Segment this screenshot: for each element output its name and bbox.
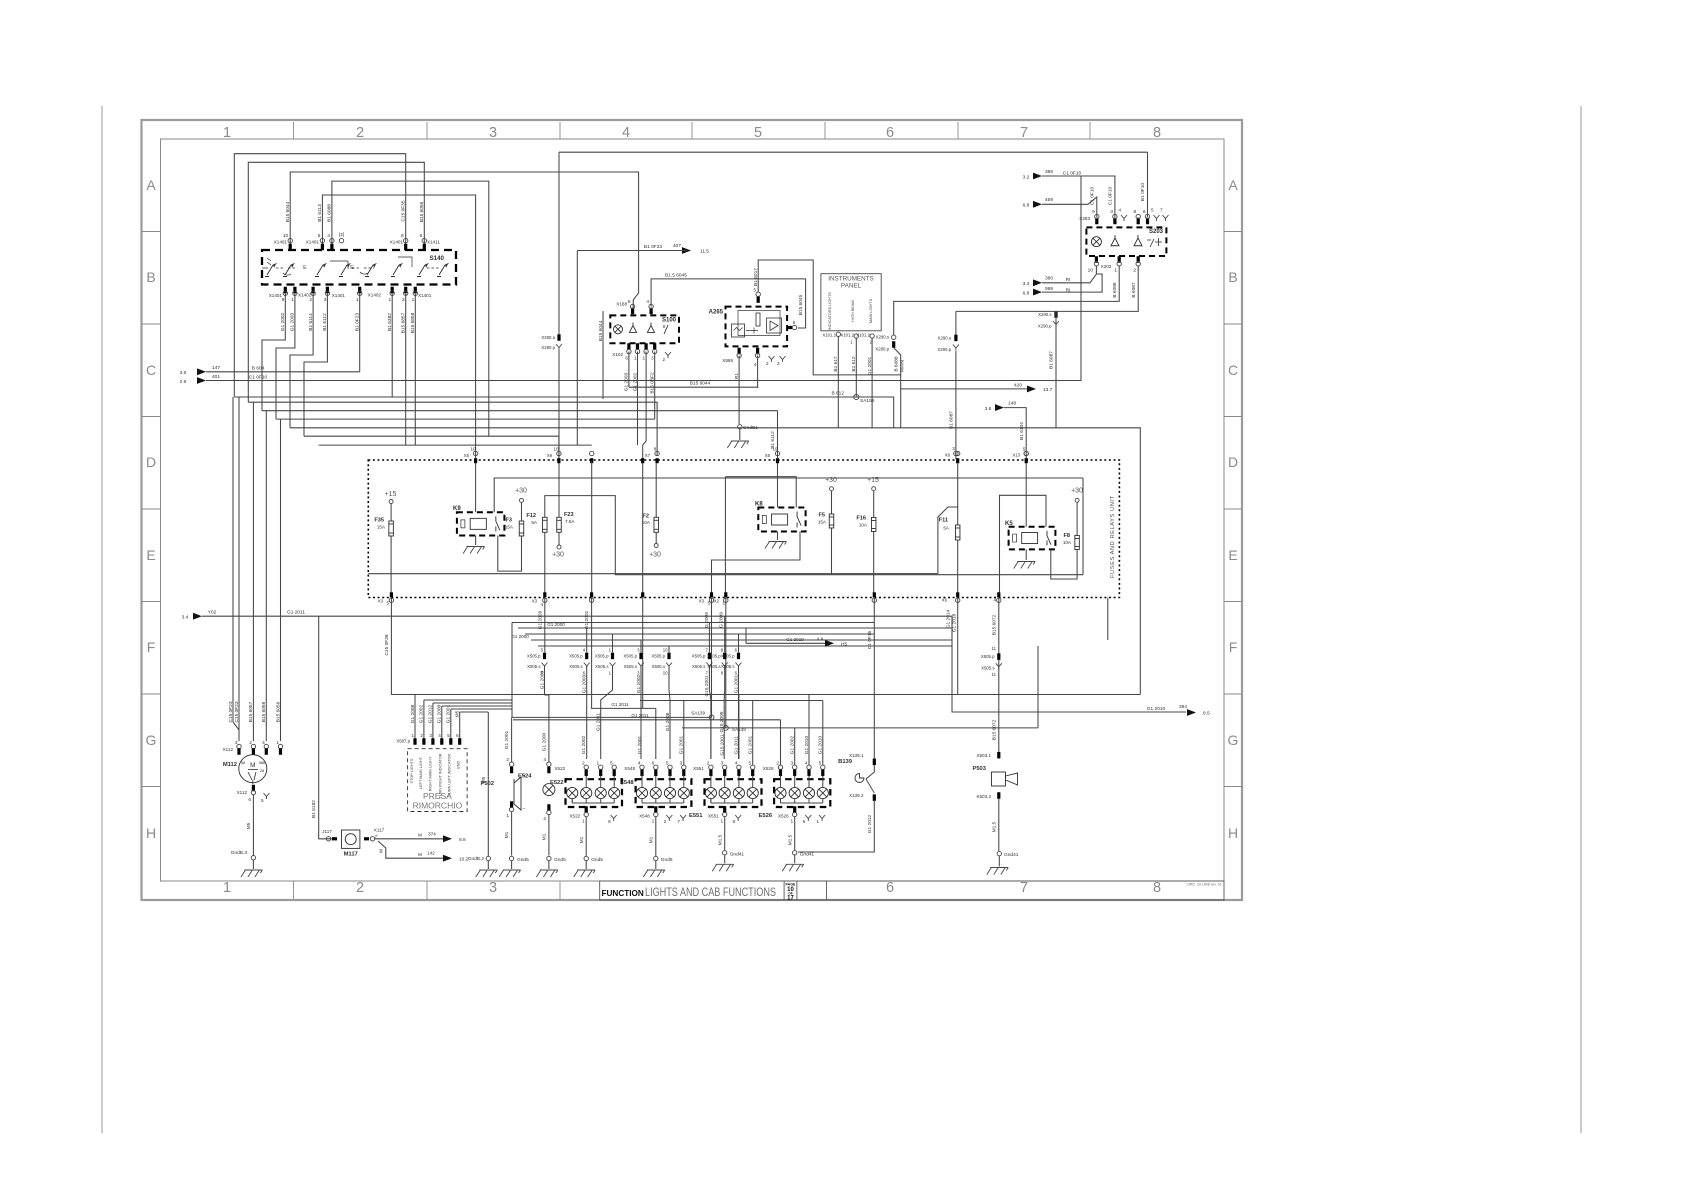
bus L3 <box>518 627 952 629</box>
A265 top terminal <box>757 296 760 303</box>
svg-text:F3: F3 <box>505 518 512 524</box>
svg-text:P503: P503 <box>972 766 986 772</box>
svg-text:X13: X13 <box>1012 453 1020 458</box>
wire F2 up <box>655 463 657 517</box>
svg-text:MAIN: MAIN <box>899 359 905 372</box>
svg-text:1: 1 <box>412 297 415 303</box>
wire A265 pin4 down <box>757 356 759 389</box>
svg-text:C15 0F38: C15 0F38 <box>384 634 390 655</box>
svg-text:E: E <box>146 547 155 563</box>
svg-text:J117: J117 <box>322 829 332 834</box>
wire X101.1 down to bus <box>837 337 839 428</box>
svg-text:3: 3 <box>429 733 432 738</box>
svg-text:X505.p: X505.p <box>595 654 609 659</box>
wire to M117 <box>319 616 332 839</box>
svg-text:F11: F11 <box>939 518 948 524</box>
ground GndB1 <box>738 425 742 429</box>
svg-text:4: 4 <box>1118 208 1121 213</box>
svg-text:INSTRUMENTS: INSTRUMENTS <box>828 276 873 283</box>
svg-text:B1 6104: B1 6104 <box>1019 422 1025 440</box>
PRESA pin6 M5 to GndB2 <box>460 711 489 713</box>
svg-text:M1: M1 <box>649 836 655 843</box>
svg-text:5: 5 <box>386 601 389 606</box>
wire S203 pin2 left <box>956 266 1138 311</box>
svg-text:+30: +30 <box>515 488 527 495</box>
E522 bottom rail <box>571 799 573 803</box>
svg-text:[2]: [2] <box>339 232 344 237</box>
svg-text:8: 8 <box>1153 880 1161 896</box>
svg-text:M1.5: M1.5 <box>788 834 794 845</box>
svg-text:G1 2011: G1 2011 <box>596 713 602 731</box>
svg-text:2: 2 <box>356 880 364 896</box>
svg-text:1: 1 <box>722 601 725 606</box>
svg-text:2: 2 <box>543 816 546 822</box>
svg-text:+30: +30 <box>1071 488 1083 495</box>
svg-text:E551: E551 <box>689 813 703 819</box>
svg-text:1: 1 <box>506 813 509 819</box>
svg-text:M1.5: M1.5 <box>718 834 724 845</box>
wire M112 aux stub <box>233 397 239 730</box>
relay K5 <box>1009 527 1056 550</box>
svg-text:X505.s: X505.s <box>624 664 637 669</box>
M117 motor <box>342 830 360 848</box>
bus L6 <box>538 645 952 647</box>
svg-text:G15 2001: G15 2001 <box>720 734 726 755</box>
svg-text:4: 4 <box>754 362 757 367</box>
svg-text:B15 6072: B15 6072 <box>991 614 997 635</box>
svg-text:X2: X2 <box>714 599 720 604</box>
E526 bottom rail <box>780 799 782 803</box>
svg-text:380: 380 <box>1045 276 1053 282</box>
svg-text:A265: A265 <box>709 310 724 316</box>
svg-text:G1 2012: G1 2012 <box>867 814 873 833</box>
svg-text:LEFT MAIN LIGHT: LEFT MAIN LIGHT <box>419 756 423 789</box>
svg-text:E: E <box>350 265 354 271</box>
svg-text:X280.p: X280.p <box>541 345 555 350</box>
svg-text:19: 19 <box>772 447 778 452</box>
svg-text:X503.1: X503.1 <box>976 753 991 758</box>
wire 407 drop <box>576 251 578 446</box>
left fan bus 4 <box>276 418 655 420</box>
svg-text:4.9: 4.9 <box>817 637 824 642</box>
svg-text:F35: F35 <box>374 518 384 524</box>
svg-text:+15: +15 <box>867 477 879 484</box>
svg-text:B 6087: B 6087 <box>1131 282 1137 298</box>
svg-text:INDICATORS LIGHTS: INDICATORS LIGHTS <box>828 292 832 330</box>
wire nest top-left run2 <box>248 162 424 402</box>
wire M117 arrow2 <box>378 841 443 858</box>
svg-text:−: − <box>523 806 526 812</box>
wire M112 pin4 drop <box>265 411 267 741</box>
svg-text:148: 148 <box>1008 401 1016 407</box>
svg-text:5: 5 <box>707 601 710 606</box>
svg-text:X865: X865 <box>722 358 733 363</box>
svg-text:6: 6 <box>886 125 894 141</box>
P502 wires <box>511 717 513 762</box>
svg-text:G1 2011: G1 2011 <box>287 610 305 616</box>
bus L12 <box>513 719 781 721</box>
wire M117 arrow1 <box>375 838 444 840</box>
svg-text:X3: X3 <box>378 599 384 604</box>
svg-text:G15 2001: G15 2001 <box>704 675 710 696</box>
svg-text:3.2: 3.2 <box>1023 175 1030 181</box>
svg-text:C1 0F10: C1 0F10 <box>1089 186 1095 205</box>
left fan bus 5 to right frame <box>290 428 1140 695</box>
svg-text:6: 6 <box>625 356 628 361</box>
svg-text:X280.a: X280.a <box>541 335 555 340</box>
svg-text:X7: X7 <box>645 453 651 458</box>
svg-text:C15 0F23: C15 0F23 <box>234 701 240 722</box>
left fan bus 7 <box>319 444 592 446</box>
svg-text:X9: X9 <box>547 453 553 458</box>
svg-text:X551: X551 <box>708 814 719 819</box>
svg-text:1: 1 <box>652 819 655 825</box>
svg-text:4: 4 <box>543 757 546 763</box>
relay K8 <box>758 508 805 532</box>
lamp cluster E526 <box>774 779 830 807</box>
svg-text:X505.p: X505.p <box>623 654 637 659</box>
svg-text:C1 0F10: C1 0F10 <box>1107 186 1113 205</box>
svg-text:Gnd41: Gnd41 <box>1004 852 1019 858</box>
svg-text:6: 6 <box>1143 209 1146 215</box>
svg-text:G1 2011: G1 2011 <box>631 713 649 718</box>
S100 bottom terminals <box>627 343 630 350</box>
connector X290 pair x894 <box>893 301 895 335</box>
svg-text:E522: E522 <box>550 780 564 786</box>
wires S140 bottom to left fan <box>262 293 285 410</box>
wire G1 2001 through box <box>591 461 593 594</box>
wire K5 contact bus <box>1000 495 1047 594</box>
svg-text:X188: X188 <box>616 302 627 307</box>
svg-text:GndB.3: GndB.3 <box>231 850 248 856</box>
svg-text:X587.p: X587.p <box>396 739 410 744</box>
bus L7 main lower <box>512 694 1140 696</box>
bus L5 <box>531 639 952 641</box>
svg-text:3: 3 <box>651 356 654 361</box>
svg-text:GndB.2: GndB.2 <box>468 856 485 862</box>
svg-text:M1: M1 <box>579 836 585 843</box>
svg-text:F: F <box>147 639 156 655</box>
wire S140 pin5 to relay K9 <box>322 195 475 458</box>
svg-text:X290.s: X290.s <box>1038 312 1051 317</box>
svg-text:6: 6 <box>793 320 796 325</box>
svg-text:X1402: X1402 <box>368 293 382 298</box>
svg-text:Gnd41: Gnd41 <box>730 851 745 857</box>
svg-text:A: A <box>146 177 156 193</box>
svg-text:SA139: SA139 <box>691 711 705 716</box>
connector X290 pair second <box>1054 311 1057 318</box>
svg-text:X101.2: X101.2 <box>856 333 870 338</box>
wire F11 via <box>957 463 959 525</box>
svg-text:F12: F12 <box>526 513 536 519</box>
wire M112 pin2 drop <box>252 402 254 741</box>
B139 switch <box>866 765 874 779</box>
svg-text:1: 1 <box>817 819 820 824</box>
wire 998 to S203 pin10 branch <box>1042 274 1102 292</box>
svg-text:X139.1: X139.1 <box>849 753 864 758</box>
svg-text:998: 998 <box>1045 286 1053 292</box>
fuse box bottom terminals <box>390 592 393 597</box>
svg-text:7: 7 <box>1020 125 1028 141</box>
wire B15 6044 left stub <box>602 311 604 399</box>
wire box to L7 <box>957 598 959 695</box>
svg-text:3: 3 <box>324 297 327 303</box>
svg-text:1: 1 <box>721 819 724 825</box>
S140 bottom terminals <box>284 287 287 294</box>
svg-text:11: 11 <box>992 672 997 677</box>
svg-text:142: 142 <box>427 851 435 856</box>
svg-text:+15: +15 <box>385 491 397 498</box>
svg-text:X1411: X1411 <box>427 240 440 245</box>
wire X101.2 G1 2001 down <box>871 338 873 428</box>
svg-text:X290.s: X290.s <box>938 336 951 341</box>
S140 top terminals <box>289 244 292 251</box>
svg-text:E524: E524 <box>518 774 532 780</box>
svg-text:G1 2008: G1 2008 <box>665 712 671 731</box>
inner border frame <box>161 139 1225 881</box>
svg-text:X505.p: X505.p <box>569 654 583 659</box>
svg-text:B1.5 6045: B1.5 6045 <box>665 273 687 279</box>
svg-text:15A: 15A <box>505 525 514 530</box>
bus L8 <box>640 700 823 702</box>
E522 ground wire <box>585 817 587 856</box>
svg-text:5: 5 <box>628 299 631 305</box>
wire K9 to top <box>475 463 477 512</box>
svg-text:PANEL: PANEL <box>841 283 862 290</box>
svg-text:X5: X5 <box>765 453 771 458</box>
svg-text:386: 386 <box>1045 169 1053 175</box>
svg-text:6: 6 <box>456 733 459 738</box>
svg-text:X290.p: X290.p <box>937 347 951 352</box>
svg-text:6: 6 <box>248 797 251 803</box>
arrow ref G1 2010 4.9 H5 <box>746 642 826 644</box>
control unit A265 <box>726 307 788 347</box>
wire F35 down <box>390 504 392 522</box>
svg-text:11.5: 11.5 <box>700 249 709 255</box>
svg-text:S140: S140 <box>430 255 445 262</box>
ground Gnd5 P502 <box>509 856 513 860</box>
svg-text:2: 2 <box>420 733 423 738</box>
svg-text:G1 2014: G1 2014 <box>945 609 951 628</box>
svg-text:2: 2 <box>664 819 667 824</box>
wire below box X3-5 <box>711 598 713 718</box>
svg-text:4: 4 <box>646 299 649 305</box>
E526 ground wire <box>794 817 796 850</box>
svg-text:GndB1: GndB1 <box>743 425 758 431</box>
svg-text:D: D <box>1228 454 1238 470</box>
A265 right terminal <box>787 326 792 329</box>
E551 bottom rail <box>710 799 712 803</box>
svg-text:B1 6113: B1 6113 <box>317 204 323 222</box>
svg-text:F2: F2 <box>642 514 649 520</box>
svg-text:+30: +30 <box>649 552 661 559</box>
svg-text:15A: 15A <box>818 520 827 525</box>
wire K5 top <box>1025 463 1027 527</box>
svg-text:B15 6057: B15 6057 <box>248 701 254 722</box>
svg-text:G1 2000: G1 2000 <box>541 732 547 751</box>
wire S140 pin10 to S100 pin5 <box>290 172 638 311</box>
svg-text:B1 6017: B1 6017 <box>753 268 759 286</box>
svg-text:RI: RI <box>1066 277 1071 283</box>
svg-text:X505.s: X505.s <box>569 664 582 669</box>
svg-text:B15 6044: B15 6044 <box>690 381 711 387</box>
svg-text:2: 2 <box>356 125 364 141</box>
svg-text:X1401: X1401 <box>390 240 404 245</box>
svg-text:S100: S100 <box>662 318 677 324</box>
bus L9 <box>591 707 656 709</box>
M112 bottom terminal <box>252 785 255 792</box>
connector X290 pair on 956 <box>954 335 957 342</box>
PRESA feed bus <box>415 694 512 696</box>
svg-text:5: 5 <box>754 125 762 141</box>
svg-text:X3: X3 <box>532 599 538 604</box>
svg-text:5A: 5A <box>531 520 538 525</box>
svg-text:B15 6059: B15 6059 <box>261 701 267 722</box>
svg-text:3.6: 3.6 <box>180 370 187 376</box>
svg-text:2: 2 <box>506 757 509 763</box>
svg-text:TURN RIGHT INDICATOR: TURN RIGHT INDICATOR <box>438 753 442 798</box>
svg-text:X139.2: X139.2 <box>849 793 864 798</box>
wire F3 to K9 contact <box>498 536 522 572</box>
S203 top terminals <box>1095 218 1098 225</box>
svg-text:G: G <box>1228 732 1239 748</box>
svg-text:B 6088: B 6088 <box>1112 282 1118 298</box>
svg-text:1: 1 <box>223 880 231 896</box>
svg-text:G1 2000: G1 2000 <box>539 670 545 689</box>
wire F8 down <box>1051 549 1077 579</box>
svg-text:1: 1 <box>291 297 294 303</box>
svg-text:K503.2: K503.2 <box>976 794 991 799</box>
svg-text:FUNCTION: FUNCTION <box>602 889 644 898</box>
svg-text:2: 2 <box>1133 268 1136 274</box>
svg-text:3.6: 3.6 <box>985 406 992 412</box>
svg-text:1: 1 <box>223 125 231 141</box>
svg-text:5: 5 <box>1023 447 1026 452</box>
svg-text:G1 2000: G1 2000 <box>547 622 565 627</box>
svg-text:G: G <box>146 732 157 748</box>
svg-text:P502: P502 <box>480 781 494 787</box>
svg-text:6.8: 6.8 <box>1023 291 1030 297</box>
svg-text:M112: M112 <box>223 762 237 768</box>
svg-text:8.5: 8.5 <box>1203 711 1210 717</box>
svg-text:6: 6 <box>608 819 611 824</box>
svg-text:1: 1 <box>389 297 392 303</box>
svg-text:8: 8 <box>654 447 657 452</box>
wire K9 coil ground <box>475 536 477 546</box>
wire F2 down +30 <box>655 532 657 543</box>
M117 left terminal <box>326 837 330 841</box>
E548 bottom rail <box>641 799 643 803</box>
svg-text:10: 10 <box>663 648 668 653</box>
E526 bottom terminal <box>793 806 796 813</box>
svg-text:B139: B139 <box>838 759 853 765</box>
svg-text:D: D <box>146 454 156 470</box>
wire F16 down <box>873 532 875 595</box>
svg-text:X290.s: X290.s <box>876 335 889 340</box>
svg-text:4: 4 <box>622 125 630 141</box>
svg-text:Y02: Y02 <box>208 610 217 616</box>
svg-text:X102: X102 <box>612 352 623 357</box>
svg-text:1: 1 <box>411 733 414 738</box>
svg-text:10A: 10A <box>859 523 868 528</box>
svg-text:C15 0F23: C15 0F23 <box>228 701 234 722</box>
wire F12 top bus <box>545 496 1083 575</box>
wire F5 down <box>831 528 833 574</box>
svg-text:X5: X5 <box>464 453 470 458</box>
svg-text:E: E <box>303 265 307 271</box>
left fan bus 6 <box>304 436 559 460</box>
svg-text:M117: M117 <box>344 852 358 858</box>
svg-text:X117: X117 <box>374 828 385 833</box>
svg-text:2.9: 2.9 <box>180 379 187 385</box>
wire x1056 down to bus <box>1055 311 1057 427</box>
S203 bottom terminals <box>1095 256 1098 263</box>
svg-text:+30: +30 <box>552 552 564 559</box>
S140 internal link lines <box>276 267 296 269</box>
svg-text:FUSES AND RELAYS UNIT: FUSES AND RELAYS UNIT <box>1110 495 1116 578</box>
wire A265 pin1 to GndB1 <box>738 356 740 425</box>
svg-text:G 2009: G 2009 <box>718 612 724 628</box>
trailer socket box PRESA RIMORCHIO <box>408 749 468 812</box>
svg-text:G1 2002: G1 2002 <box>636 674 642 693</box>
svg-text:6.8: 6.8 <box>1023 203 1030 209</box>
svg-text:B 604: B 604 <box>252 366 265 372</box>
svg-text:G1 2003: G1 2003 <box>582 674 588 693</box>
wire F23 down +30 <box>558 532 560 545</box>
wire F12 down <box>544 532 546 594</box>
ground Gnd41 P503 <box>997 851 1001 855</box>
svg-text:CIRC. GI.I.608 rev. 01: CIRC. GI.I.608 rev. 01 <box>1186 883 1221 887</box>
page edge mark right <box>1580 106 1582 1133</box>
svg-text:4: 4 <box>438 733 441 738</box>
title block <box>600 881 1224 900</box>
svg-text:E: E <box>1228 547 1237 563</box>
svg-text:5A: 5A <box>943 526 950 531</box>
svg-text:+30: +30 <box>825 477 837 484</box>
svg-text:3: 3 <box>777 361 780 366</box>
svg-text:3.4: 3.4 <box>182 615 189 621</box>
svg-text:M1: M1 <box>504 831 510 838</box>
svg-text:M: M <box>250 762 255 769</box>
svg-text:X551: X551 <box>693 766 704 771</box>
svg-text:H: H <box>146 825 156 841</box>
hazard switch S203 <box>1086 227 1166 256</box>
A265 bottom terminals <box>738 348 741 355</box>
svg-text:X526: X526 <box>778 814 789 819</box>
svg-text:9: 9 <box>1092 209 1095 215</box>
svg-text:459: 459 <box>1045 197 1053 203</box>
wire F23 up <box>558 463 560 517</box>
S100 internal lamp <box>614 325 623 334</box>
svg-text:K8: K8 <box>755 502 763 508</box>
svg-text:MAIN LIGHTS: MAIN LIGHTS <box>869 298 873 323</box>
svg-text:4: 4 <box>993 598 996 603</box>
svg-text:X522: X522 <box>569 814 580 819</box>
svg-text:10: 10 <box>1088 268 1094 274</box>
svg-text:X6: X6 <box>942 598 948 603</box>
svg-text:X3: X3 <box>699 599 705 604</box>
svg-text:E526: E526 <box>759 813 773 819</box>
svg-text:K9: K9 <box>453 506 461 512</box>
svg-text:M: M <box>418 852 422 857</box>
svg-text:X112: X112 <box>237 790 248 795</box>
svg-text:10: 10 <box>470 447 476 452</box>
wire M112 pin3 drop <box>238 397 240 741</box>
svg-text:G1 2018: G1 2018 <box>951 613 957 632</box>
svg-text:G1 2010: G1 2010 <box>786 637 804 642</box>
wire x642 through box <box>642 445 644 595</box>
svg-text:17: 17 <box>787 896 794 902</box>
